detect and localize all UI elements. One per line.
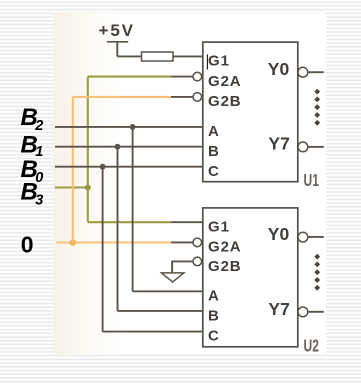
svg-text:B: B [208, 143, 220, 160]
svg-text:Y7: Y7 [268, 133, 289, 153]
wire B2 to U2 pin A [133, 290, 203, 292]
U1 pin label G2A [208, 73, 242, 90]
U2 output Y0 stub [309, 236, 324, 238]
wire B1 vertical to U2 [117, 147, 119, 311]
power +5V label [99, 21, 135, 40]
node B3 label [21, 178, 44, 208]
U1 pin label C [208, 163, 220, 180]
wire 0 to U1 G2B [73, 96, 171, 98]
svg-text:B: B [208, 308, 220, 325]
U2 pin label G2A [208, 239, 242, 256]
U1 pin label B [208, 143, 220, 160]
U1 output Y7 bubble [298, 142, 308, 152]
U2 outputs ellipsis diamonds [314, 254, 320, 291]
wire +5V to resistor [117, 55, 141, 57]
node B2 label [21, 104, 44, 134]
decoder U2 body [203, 208, 298, 347]
svg-text:G2A: G2A [208, 73, 242, 90]
U2 pin label B [208, 308, 220, 325]
svg-text:G2B: G2B [208, 93, 242, 110]
node B0 label [21, 156, 44, 186]
svg-text:Y0: Y0 [268, 59, 290, 79]
U2 output Y7 stub [309, 311, 324, 313]
U1 reference label [304, 171, 320, 191]
U2 pin G1 stub [171, 221, 203, 223]
U1 pin G2A stub [171, 76, 193, 78]
junction dot 0 [70, 239, 77, 246]
wire B3 vertical (olive) [87, 77, 89, 223]
U2 pin G2B wire to ground [172, 261, 193, 273]
U1 output label Y7 [268, 133, 289, 153]
wire B1 to U1 pin B [55, 146, 203, 148]
U2 pin G2A stub [171, 241, 193, 243]
junction dot B1 [115, 144, 121, 150]
svg-text:G2B: G2B [208, 258, 242, 275]
U1 output label Y0 [268, 59, 290, 79]
power rail symbol [107, 42, 128, 57]
U2 pin label C [208, 328, 220, 345]
U2 pin G2B bubble [193, 257, 202, 266]
wire B2 vertical to U2 [132, 127, 134, 291]
svg-text:U1: U1 [304, 171, 320, 191]
svg-text:A: A [208, 123, 220, 140]
U1 output Y7 stub [309, 146, 324, 148]
U2 reference label [304, 336, 319, 356]
U1 pin G2B stub [171, 96, 193, 98]
U1 pin G2B bubble [193, 93, 202, 102]
junction dot B0 [100, 164, 106, 170]
wire B1 to U2 pin B [118, 310, 203, 312]
svg-text:0: 0 [21, 231, 34, 257]
U1 outputs ellipsis diamonds [314, 89, 320, 126]
white schematic page panel [54, 13, 326, 355]
svg-text:Y7: Y7 [268, 299, 289, 319]
svg-text:G1: G1 [208, 53, 230, 70]
svg-text:3: 3 [35, 193, 43, 209]
wire B3 horizontal (olive) [55, 186, 88, 188]
junction dot B2 [130, 124, 136, 130]
svg-text:C: C [208, 328, 220, 345]
wire B0 to U1 pin C [55, 166, 203, 168]
svg-text:U2: U2 [304, 336, 319, 356]
U1 pin label A [208, 123, 220, 140]
node B1 label [21, 131, 44, 160]
U1 pin G2A bubble [193, 72, 202, 81]
svg-text:+5V: +5V [99, 21, 135, 40]
U2 output Y7 bubble [298, 307, 308, 317]
U2 pin G2A bubble [193, 238, 202, 247]
U2 output label Y0 [268, 224, 290, 244]
svg-text:Y0: Y0 [268, 224, 290, 244]
wire B0 vertical to U2 [102, 167, 104, 332]
junction dot B3 [85, 185, 91, 191]
wire 0 horizontal (orange) [57, 241, 172, 243]
wire resistor to U1 G1 [173, 55, 203, 57]
wire 0 vertical (orange) [72, 97, 74, 243]
ground symbol [162, 273, 184, 282]
wire B2 to U1 pin A [55, 126, 203, 128]
U2 pin label A [208, 288, 220, 305]
svg-text:C: C [208, 163, 220, 180]
decoder U1 body [203, 42, 298, 182]
U2 pin label G1 [208, 218, 230, 235]
U1 output Y0 stub [309, 71, 324, 73]
svg-text:G2A: G2A [208, 239, 242, 256]
svg-text:A: A [208, 288, 220, 305]
wire B3 to U2 G1 [88, 221, 171, 223]
svg-text:G1: G1 [208, 218, 230, 235]
U1 pin label G2B [208, 93, 242, 110]
wire B0 to U2 pin C [103, 331, 203, 333]
U2 output label Y7 [268, 299, 289, 319]
U2 output Y0 bubble [298, 232, 308, 242]
wire B3 to U1 G2A [88, 76, 171, 78]
U1 text cursor [206, 55, 208, 70]
U1 pin label G1 [208, 53, 230, 70]
node 0 label [21, 231, 34, 257]
resistor R1 [142, 52, 174, 61]
U1 output Y0 bubble [298, 67, 308, 77]
U2 pin label G2B [208, 258, 242, 275]
